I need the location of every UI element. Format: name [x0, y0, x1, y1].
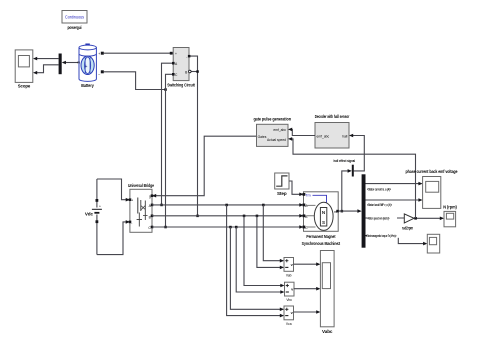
- phase wire B bridge to PMSM: [152, 214, 304, 218]
- svg-text:Gates: Gates: [258, 135, 267, 139]
- wire battery plus to switching circuit: [104, 52, 173, 55]
- wire rotor speed to gain: [366, 217, 405, 219]
- scope N rpm: [443, 205, 457, 227]
- universal bridge block: [128, 183, 154, 232]
- voltage measurement VM2: [285, 282, 295, 302]
- wire torque to scope3: [366, 236, 428, 246]
- svg-text:<Electromagnetic torque Te (N*: <Electromagnetic torque Te (N*m)>: [366, 234, 397, 238]
- wire Vdc plus to bridge: [97, 179, 130, 202]
- svg-text:Continuous: Continuous: [65, 15, 85, 20]
- wire switching circuit right top down to phase B: [188, 55, 199, 217]
- svg-text:_: _: [97, 70, 100, 74]
- demux battery measurement: [59, 54, 62, 75]
- svg-text:Vca: Vca: [286, 322, 292, 326]
- switching circuit block: [167, 48, 195, 88]
- wire step to pmsm Tm: [289, 181, 304, 196]
- label hall effect signal: [334, 159, 356, 163]
- label rotor speed: [367, 216, 397, 221]
- svg-text:Scope: Scope: [18, 84, 31, 89]
- wire Vdc minus to bridge: [97, 220, 130, 255]
- hall selector bar: [352, 165, 354, 177]
- voltage measurement VM3: [284, 306, 294, 326]
- svg-text:m: m: [77, 61, 80, 65]
- svg-text:+: +: [85, 64, 88, 70]
- svg-text:-: -: [131, 221, 132, 225]
- svg-text:Synchronous Machine2: Synchronous Machine2: [302, 241, 341, 246]
- dc source Vdc: [85, 179, 102, 255]
- phase wire A bridge to PMSM: [152, 203, 304, 207]
- wire switching circuit A down to phase A: [160, 62, 174, 206]
- svg-text:Actual speed: Actual speed: [267, 138, 286, 142]
- svg-text:Decoder with hall sensor: Decoder with hall sensor: [315, 114, 350, 119]
- svg-text:Universal Bridge: Universal Bridge: [128, 183, 154, 188]
- svg-text:Vdc: Vdc: [85, 211, 94, 216]
- svg-text:Permanent Magnet: Permanent Magnet: [306, 234, 335, 239]
- label back emf: [367, 203, 392, 207]
- wire phase A to VM1 plus: [263, 205, 284, 263]
- svg-text:<Rotor speed wm (rad/s)>: <Rotor speed wm (rad/s)>: [367, 217, 390, 221]
- label torque: [366, 233, 410, 238]
- wire stator current to scope1: [366, 182, 423, 186]
- wire phase B to VM1 minus: [257, 216, 284, 269]
- svg-text:Vab: Vab: [286, 273, 292, 277]
- step block: [275, 173, 289, 196]
- wire phase C to VM2 minus: [236, 227, 284, 294]
- wire switching circuit right bottom stub: [189, 70, 199, 73]
- svg-text:+: +: [131, 199, 133, 203]
- wire pmsm m tap to hall selector: [341, 169, 352, 212]
- pmsm block: [302, 192, 341, 246]
- battery block: [77, 44, 104, 88]
- wire actual speed feedback: [288, 137, 416, 218]
- svg-text:gate pulse generation: gate pulse generation: [253, 116, 291, 121]
- svg-text:Vabc: Vabc: [322, 329, 333, 334]
- wire gain to N rpm scope: [414, 217, 444, 221]
- svg-text:hall effect signal: hall effect signal: [334, 159, 356, 163]
- svg-text:Switching Circuit: Switching Circuit: [167, 82, 195, 87]
- svg-text:-: -: [186, 55, 187, 59]
- svg-text:<Stator back EMF e_a (V)>: <Stator back EMF e_a (V)>: [367, 203, 392, 207]
- svg-text:emf_abc: emf_abc: [317, 134, 330, 138]
- svg-text:+: +: [99, 205, 101, 209]
- label stator current: [367, 187, 391, 191]
- wire gates to bridge g: [152, 136, 257, 197]
- phase wire C bridge to PMSM: [152, 225, 304, 229]
- gain rad2rpm: [402, 214, 414, 231]
- wire demux out2 to scope: [33, 65, 59, 75]
- svg-text:S: S: [322, 220, 325, 225]
- wire phase A to VM3 minus: [227, 205, 284, 318]
- svg-text:phase current back emf voltage: phase current back emf voltage: [406, 169, 458, 174]
- wire decoder emf_abc to gate block: [288, 128, 315, 136]
- svg-text:emf_abc: emf_abc: [273, 128, 286, 132]
- decoder with hall sensor block: [315, 114, 350, 148]
- svg-text:<Stator current is_a (A)>: <Stator current is_a (A)>: [367, 187, 391, 191]
- bus selector bar: [362, 174, 366, 247]
- svg-text:g: g: [149, 195, 151, 199]
- svg-text:+: +: [98, 52, 100, 56]
- gate pulse generation block: [253, 116, 291, 146]
- wire VM1 to Vabc scope: [294, 262, 321, 266]
- svg-text:+: +: [175, 52, 177, 56]
- wire phase C to VM3 plus: [230, 227, 284, 311]
- svg-text:Step: Step: [277, 191, 287, 196]
- scope Vabc: [320, 251, 334, 335]
- wire battery minus to phase C vertical: [104, 72, 167, 91]
- wire VM3 to Vabc scope: [294, 310, 321, 314]
- wire battery m to demux: [62, 61, 79, 65]
- svg-text:Tm: Tm: [305, 194, 310, 198]
- powergui block: [62, 11, 87, 31]
- scope1 phase current back emf voltage: [406, 169, 458, 209]
- svg-text:hall: hall: [342, 134, 347, 138]
- wire VM2 to Vabc scope: [294, 287, 320, 291]
- svg-text:Vbc: Vbc: [286, 298, 292, 302]
- scope torque: [427, 234, 439, 253]
- wire switching circuit C down to phase C: [164, 73, 174, 228]
- svg-text:Battery: Battery: [81, 83, 94, 88]
- wire hall feedback to decoder: [349, 134, 364, 171]
- svg-text:N (rpm): N (rpm): [443, 205, 457, 210]
- svg-text:rad2rpm: rad2rpm: [402, 226, 413, 231]
- wire pmsm m to bus selector: [338, 209, 361, 213]
- wire demux out1 to scope: [33, 57, 59, 61]
- wire back emf to scope1: [366, 198, 423, 202]
- svg-text:powergui: powergui: [68, 25, 82, 30]
- voltage measurement VM1: [284, 258, 294, 278]
- wire phase B to VM2 plus: [244, 216, 285, 287]
- scope Scope: [15, 50, 33, 89]
